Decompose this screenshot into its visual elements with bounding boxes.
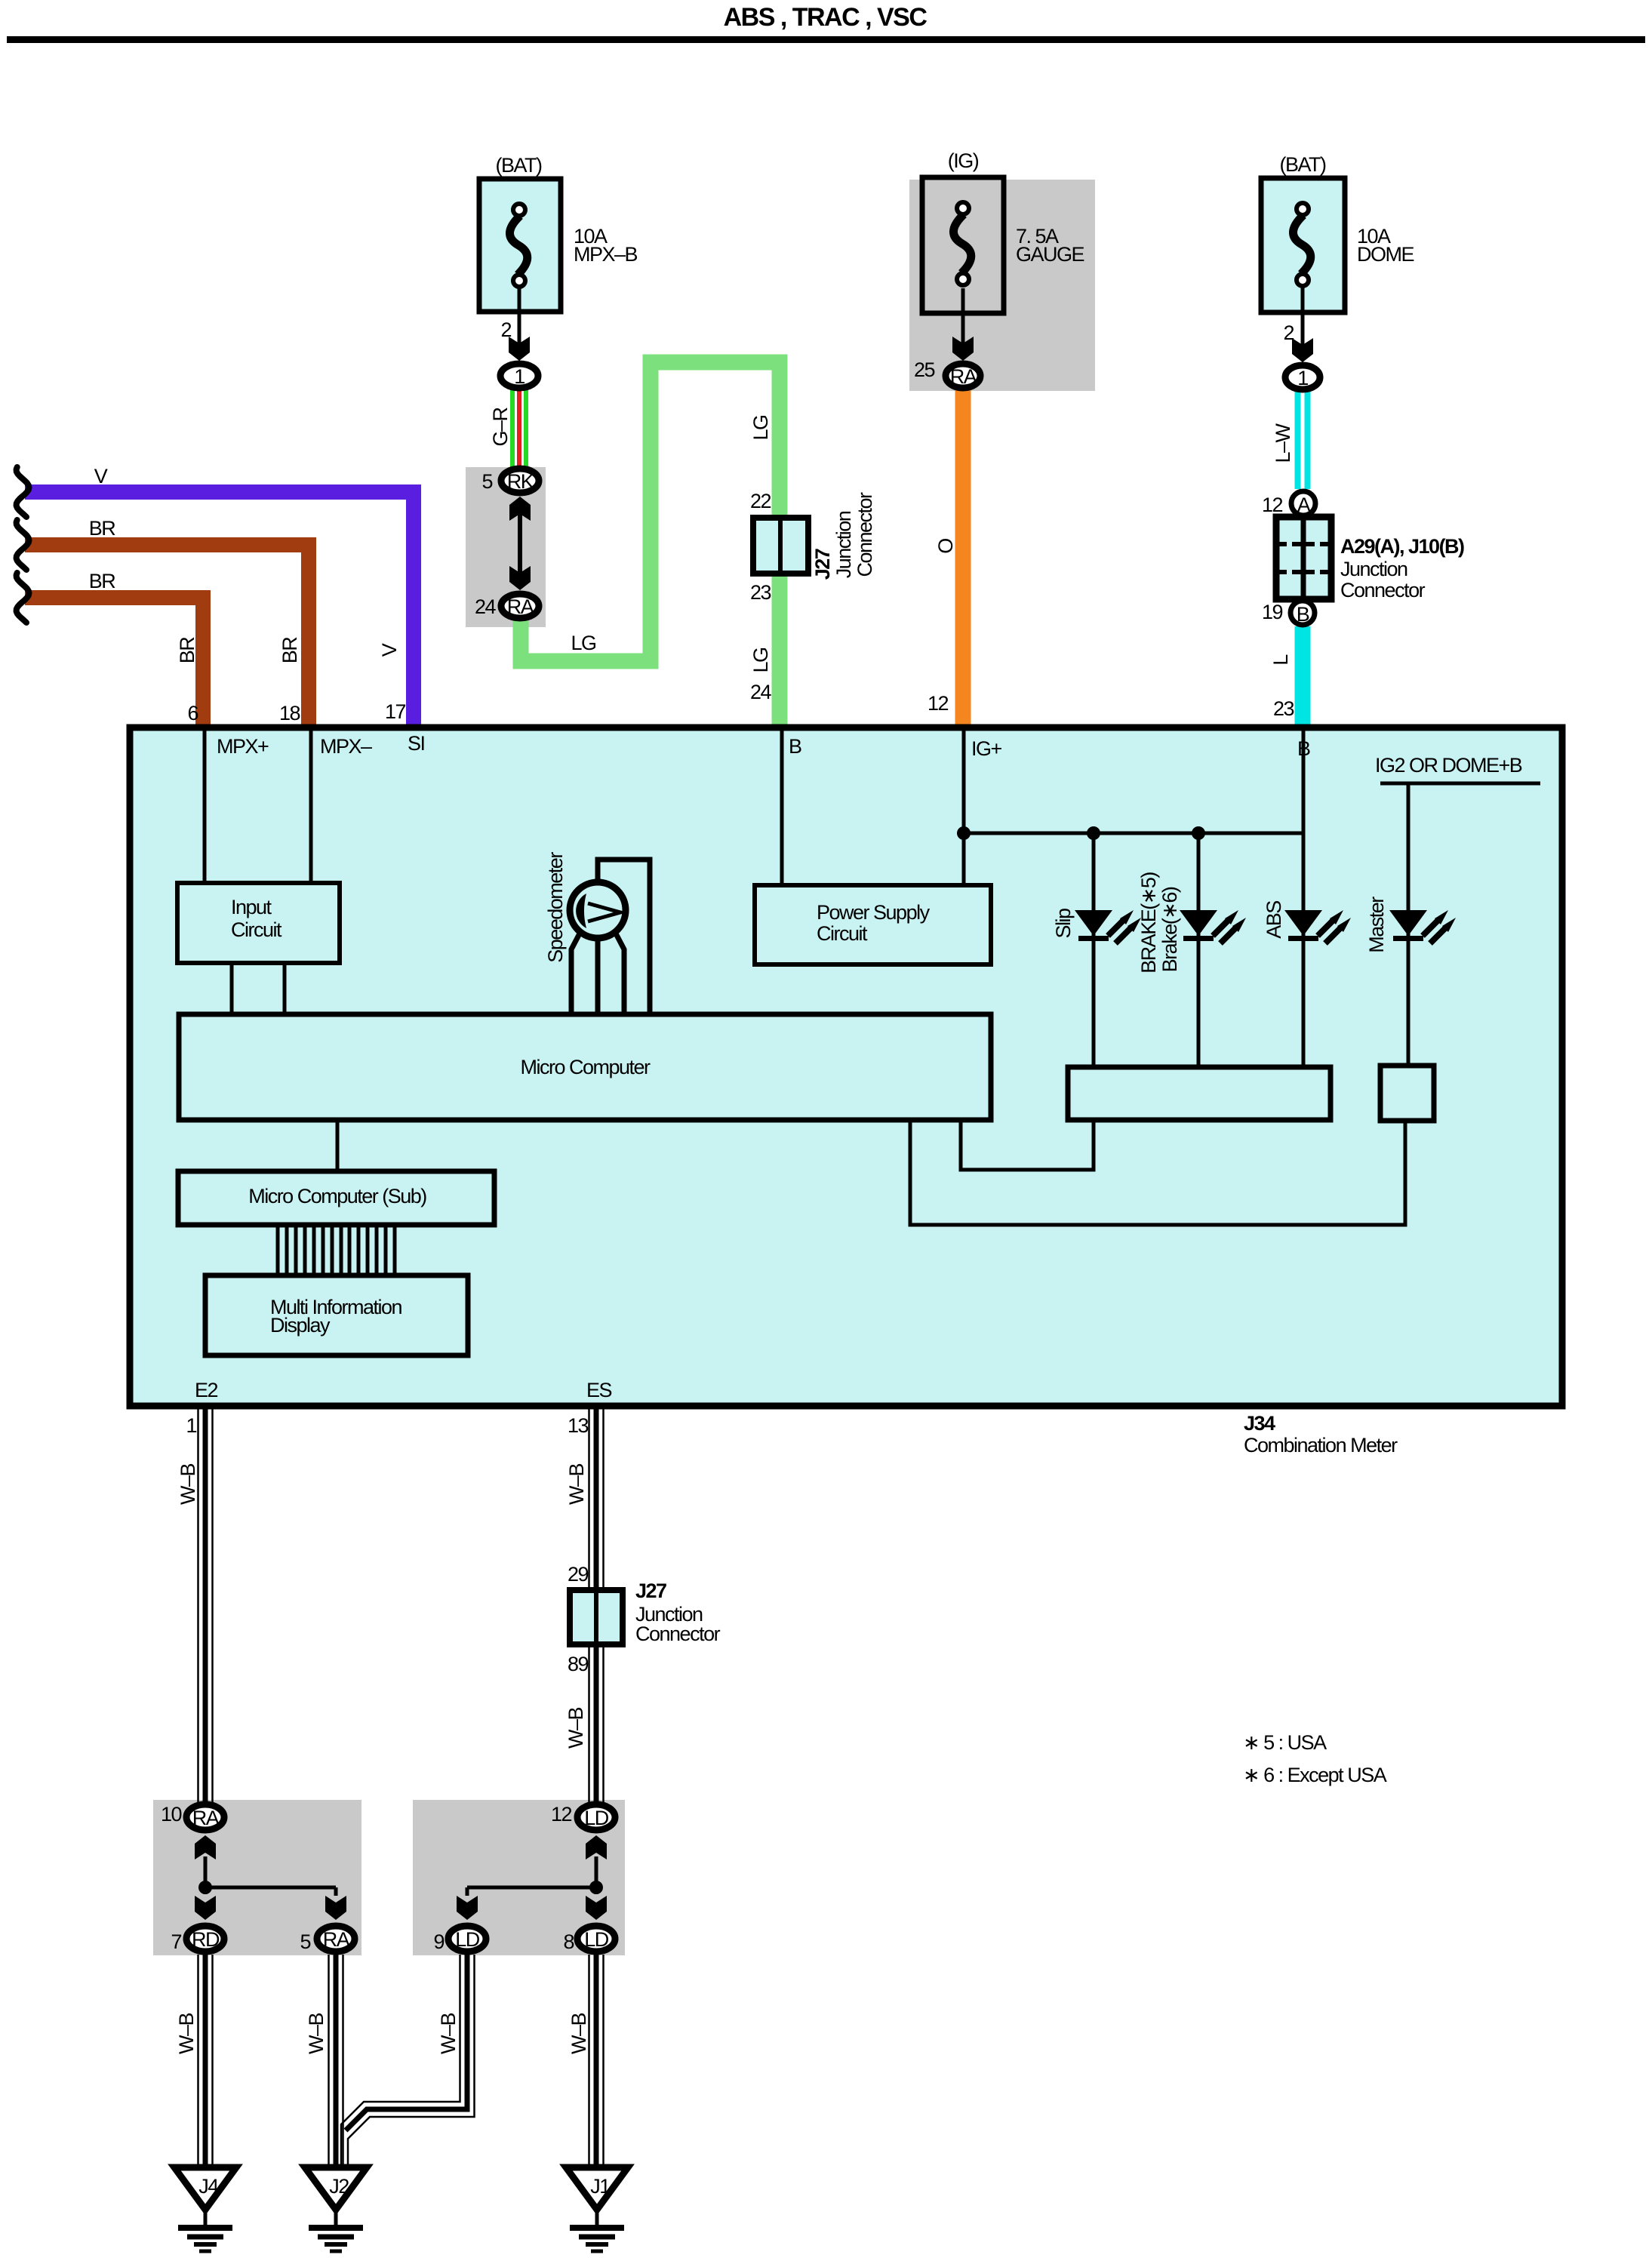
svg-text:J4: J4 bbox=[198, 2175, 219, 2198]
top rule bbox=[7, 36, 1645, 43]
svg-text:LD: LD bbox=[584, 1928, 609, 1951]
connector oval RA (10) bbox=[186, 1804, 224, 1830]
fuse 10A MPX-B (BAT) bbox=[479, 179, 561, 312]
wire W-B LD(9) jog to ground J2 bbox=[346, 1955, 467, 2130]
svg-text:A29(A), J10(B): A29(A), J10(B) bbox=[1340, 535, 1464, 558]
double connector arrows between RK and RA bbox=[509, 497, 531, 521]
svg-text:W–B: W–B bbox=[565, 1464, 588, 1506]
connector arrow into oval 1 (MPX-B) bbox=[509, 337, 530, 361]
svg-text:V: V bbox=[378, 643, 401, 657]
svg-text:SI: SI bbox=[408, 732, 425, 755]
wire master led branch from IG2/DOME+B line bbox=[1407, 783, 1411, 1067]
svg-text:MPX–B: MPX–B bbox=[574, 243, 638, 266]
svg-text:RA: RA bbox=[323, 1928, 350, 1951]
led ABS bbox=[1284, 910, 1351, 943]
svg-text:RA: RA bbox=[507, 595, 534, 618]
svg-text:Circuit: Circuit bbox=[231, 918, 282, 941]
fuse 10A DOME (BAT) bbox=[1261, 178, 1345, 312]
svg-text:Display: Display bbox=[270, 1314, 331, 1337]
junction dot slip branch bbox=[1087, 826, 1100, 840]
micro computer box bbox=[179, 1014, 991, 1120]
svg-text:25: 25 bbox=[914, 358, 935, 381]
svg-text:B: B bbox=[789, 735, 801, 758]
svg-text:LD: LD bbox=[584, 1807, 609, 1829]
power supply circuit box bbox=[755, 885, 991, 964]
fuse 7.5A GAUGE (IG) bbox=[922, 177, 1004, 313]
svg-text:7: 7 bbox=[171, 1930, 181, 1953]
svg-text:Junction: Junction bbox=[832, 511, 855, 578]
svg-text:B: B bbox=[1297, 603, 1309, 626]
svg-text:Input: Input bbox=[231, 896, 272, 918]
svg-text:Junction: Junction bbox=[1340, 558, 1407, 580]
gray overlap box around GAUGE fuse bbox=[909, 180, 1095, 391]
svg-text:13: 13 bbox=[568, 1414, 589, 1437]
svg-text:Connector: Connector bbox=[1340, 579, 1426, 601]
svg-text:19: 19 bbox=[1262, 601, 1283, 623]
wire V (violet) from off-page to pin 17 SI bbox=[25, 492, 414, 729]
svg-text:89: 89 bbox=[568, 1653, 589, 1675]
junction dot left group bbox=[198, 1881, 212, 1894]
junction dot brake branch bbox=[1192, 826, 1205, 840]
connector oval LD (9) bbox=[448, 1926, 486, 1952]
svg-text:∗ 5 : USA: ∗ 5 : USA bbox=[1243, 1731, 1327, 1754]
wire G-R (green/red) fuse MPX-B to RK bbox=[510, 389, 528, 469]
internal bus from IG+ to indicator leds bbox=[964, 832, 1303, 835]
connector arrow into oval RA (GAUGE) bbox=[952, 337, 974, 361]
wire slip led branch bbox=[1092, 833, 1096, 1067]
svg-text:IG+: IG+ bbox=[971, 737, 1002, 760]
wire W-B LD(8) to ground J1 bbox=[588, 1955, 590, 2167]
svg-text:BRAKE(∗5): BRAKE(∗5) bbox=[1137, 872, 1160, 974]
connector arrow down into RA(5) bbox=[325, 1896, 346, 1920]
multi information display box bbox=[205, 1275, 468, 1355]
wire BR (brown) from off-page to pin 18 MPX- bbox=[25, 545, 309, 729]
gray overlap box lower-left (RA/RD/RA connector group) bbox=[153, 1800, 361, 1955]
internal wire IG+ down to power supply circuit bbox=[962, 731, 966, 885]
svg-text:ES: ES bbox=[586, 1379, 612, 1401]
ribbon bus sub computer to display bbox=[276, 1225, 280, 1275]
svg-text:1: 1 bbox=[514, 365, 525, 388]
internal wire MPX+ to input circuit bbox=[203, 731, 207, 883]
connector arrow into oval 1 (DOME) bbox=[1292, 338, 1313, 362]
svg-text:5: 5 bbox=[481, 470, 492, 493]
internal wire MPX- to input circuit bbox=[309, 731, 313, 883]
svg-text:J34: J34 bbox=[1244, 1412, 1275, 1435]
svg-text:LG: LG bbox=[571, 632, 595, 654]
wire LG (light green) RA to pin 24 B via J27 bbox=[521, 362, 780, 729]
connector oval RD (7) bbox=[186, 1926, 224, 1952]
branch wire to LD(9) bbox=[467, 1886, 596, 1890]
wire micro computer to master driver box bbox=[910, 1120, 1405, 1225]
wire micro computer to driver box bbox=[961, 1120, 1094, 1170]
svg-text:Connector: Connector bbox=[635, 1623, 721, 1645]
svg-text:IG2 OR DOME+B: IG2 OR DOME+B bbox=[1375, 754, 1522, 777]
junction connector J27 (W-B wire) bbox=[570, 1590, 623, 1644]
svg-text:DOME: DOME bbox=[1357, 243, 1414, 266]
svg-text:LG: LG bbox=[749, 648, 772, 672]
connector oval RA (5) bbox=[317, 1926, 355, 1952]
svg-text:W–B: W–B bbox=[565, 1708, 587, 1749]
combination meter J34 outline bbox=[130, 727, 1562, 1406]
svg-text:Combination Meter: Combination Meter bbox=[1244, 1434, 1398, 1457]
svg-text:J27: J27 bbox=[635, 1580, 666, 1602]
wire break squiggle on upper BR wire bbox=[17, 520, 29, 570]
speedometer wire top loop to micro computer bbox=[598, 860, 650, 1014]
wire fuse GAUGE to connector arrow bbox=[961, 288, 965, 344]
connector circle B bbox=[1291, 601, 1315, 626]
internal wire B (L) down to led bus bbox=[1302, 731, 1306, 833]
svg-text:23: 23 bbox=[1273, 697, 1294, 720]
svg-text:29: 29 bbox=[568, 1563, 589, 1586]
indicator driver box (slip/brake/abs) bbox=[1068, 1067, 1331, 1120]
svg-text:W–B: W–B bbox=[177, 1464, 199, 1506]
svg-text:(BAT): (BAT) bbox=[496, 154, 542, 177]
ground J4 bbox=[174, 2167, 236, 2251]
led Master bbox=[1389, 910, 1456, 943]
connector arrow down into RD(7) bbox=[195, 1896, 216, 1920]
speedometer symbol bbox=[570, 882, 626, 938]
svg-text:12: 12 bbox=[551, 1803, 572, 1826]
svg-text:LG: LG bbox=[749, 415, 772, 440]
connector oval RA bbox=[501, 594, 539, 618]
connector arrow down into LD(9) bbox=[457, 1896, 478, 1920]
micro computer (sub) box bbox=[178, 1171, 494, 1225]
branch wire to RA(5) bbox=[205, 1886, 336, 1890]
wire L-W (light blue/white) fuse DOME to A bbox=[1295, 392, 1311, 489]
svg-text:(IG): (IG) bbox=[948, 149, 979, 172]
connector arrow down into LD(8) bbox=[586, 1896, 607, 1920]
svg-text:Speedometer: Speedometer bbox=[544, 852, 567, 963]
svg-text:A: A bbox=[1297, 494, 1311, 516]
wire below LD(12) bbox=[595, 1856, 598, 1894]
svg-text:MPX–: MPX– bbox=[320, 735, 372, 758]
svg-text:23: 23 bbox=[750, 581, 771, 604]
svg-text:∗ 6 : Except USA: ∗ 6 : Except USA bbox=[1243, 1764, 1387, 1786]
svg-text:RA: RA bbox=[950, 365, 977, 388]
connector oval RA (GAUGE) bbox=[946, 364, 980, 388]
input circuit box bbox=[177, 883, 340, 963]
svg-text:12: 12 bbox=[1262, 494, 1283, 516]
svg-text:LD: LD bbox=[455, 1928, 480, 1951]
wire break squiggle on lower BR wire bbox=[17, 573, 29, 623]
svg-text:J27: J27 bbox=[811, 549, 834, 580]
wire fuse MPX-B to connector arrow bbox=[518, 287, 521, 344]
svg-text:24: 24 bbox=[475, 595, 497, 618]
svg-text:L: L bbox=[1269, 654, 1292, 666]
svg-text:RA: RA bbox=[192, 1807, 220, 1829]
svg-text:RK: RK bbox=[507, 470, 534, 493]
svg-text:(BAT): (BAT) bbox=[1280, 153, 1326, 176]
wire abs led branch bbox=[1302, 833, 1306, 1067]
svg-text:ABS: ABS bbox=[1263, 901, 1285, 939]
wire W-B from ES bbox=[588, 1409, 590, 1803]
wire micro computer to sub computer bbox=[336, 1120, 340, 1171]
led Slip bbox=[1075, 910, 1141, 943]
gray overlap box around RK/RA connector pair bbox=[466, 467, 546, 627]
svg-text:Connector: Connector bbox=[854, 492, 876, 577]
svg-text:J1: J1 bbox=[590, 2175, 610, 2198]
svg-text:BR: BR bbox=[89, 570, 116, 592]
svg-text:22: 22 bbox=[750, 490, 771, 512]
connector oval 1 (MPX-B) bbox=[500, 364, 538, 388]
svg-text:BR: BR bbox=[89, 517, 116, 540]
connector arrow up into LD(12) bbox=[586, 1835, 607, 1859]
svg-text:G–R: G–R bbox=[489, 407, 512, 446]
svg-text:17: 17 bbox=[385, 700, 406, 723]
svg-text:L–W: L–W bbox=[1272, 423, 1294, 463]
ground J2 bbox=[305, 2167, 367, 2251]
gray overlap box lower-right (LD/LD/LD connector group) bbox=[413, 1800, 625, 1955]
svg-text:W–B: W–B bbox=[437, 2013, 460, 2055]
svg-text:Slip: Slip bbox=[1052, 909, 1075, 939]
svg-text:E2: E2 bbox=[195, 1379, 218, 1401]
junction connector J27 (LG wire) bbox=[753, 518, 808, 574]
svg-text:Circuit: Circuit bbox=[817, 922, 868, 945]
wire break squiggle on V wire bbox=[17, 467, 29, 517]
connector circle A bbox=[1291, 491, 1315, 516]
wire W-B RA(5) to ground J2 bbox=[328, 1955, 330, 2167]
svg-text:8: 8 bbox=[563, 1930, 574, 1953]
junction connector A29(A), J10(B) bbox=[1276, 517, 1331, 599]
connector oval LD (8) bbox=[577, 1926, 615, 1952]
svg-text:18: 18 bbox=[279, 702, 300, 724]
led BRAKE bbox=[1180, 910, 1246, 943]
svg-text:24: 24 bbox=[750, 681, 772, 703]
svg-text:Master: Master bbox=[1365, 897, 1388, 953]
svg-text:1: 1 bbox=[1297, 367, 1308, 389]
junction dot IG+ bbox=[957, 826, 971, 840]
svg-text:W–B: W–B bbox=[568, 2013, 590, 2055]
connector arrow up into RA(10) bbox=[195, 1835, 216, 1859]
svg-text:9: 9 bbox=[433, 1930, 444, 1953]
svg-text:Brake(∗6): Brake(∗6) bbox=[1158, 887, 1181, 972]
svg-text:Micro Computer: Micro Computer bbox=[520, 1056, 651, 1078]
svg-text:Micro Computer (Sub): Micro Computer (Sub) bbox=[248, 1185, 426, 1207]
speedometer wires bottom to micro computer bbox=[571, 934, 580, 1014]
svg-text:ABS , TRAC , VSC: ABS , TRAC , VSC bbox=[724, 3, 928, 32]
svg-text:RD: RD bbox=[192, 1928, 220, 1951]
svg-text:J2: J2 bbox=[329, 2175, 349, 2198]
svg-text:5: 5 bbox=[300, 1930, 310, 1953]
internal wire B to power supply circuit bbox=[780, 731, 784, 885]
wire W-B RD(7) to ground J4 bbox=[197, 1955, 199, 2167]
svg-text:6: 6 bbox=[187, 702, 198, 724]
svg-text:GAUGE: GAUGE bbox=[1016, 243, 1084, 266]
svg-text:W–B: W–B bbox=[175, 2013, 198, 2055]
connector oval RK bbox=[501, 469, 539, 493]
svg-text:BR: BR bbox=[278, 637, 301, 664]
svg-text:12: 12 bbox=[928, 692, 949, 715]
connector oval LD (12) bbox=[577, 1804, 615, 1830]
svg-text:MPX+: MPX+ bbox=[217, 735, 269, 758]
wire fuse DOME to connector arrow bbox=[1301, 287, 1305, 346]
wire below RA(10) bbox=[204, 1856, 208, 1894]
svg-text:Power Supply: Power Supply bbox=[817, 901, 931, 924]
wire O (orange) gauge RA to pin 12 IG+ bbox=[955, 389, 971, 729]
ground J1 bbox=[566, 2167, 628, 2251]
wires input circuit to micro computer bbox=[230, 963, 234, 1014]
svg-text:BR: BR bbox=[176, 637, 198, 664]
connector oval 1 (DOME) bbox=[1285, 365, 1320, 389]
svg-text:1: 1 bbox=[186, 1414, 196, 1437]
svg-text:W–B: W–B bbox=[305, 2013, 328, 2055]
junction dot right group bbox=[589, 1881, 603, 1894]
wire W-B from E2 bbox=[197, 1409, 199, 1803]
master driver box bbox=[1380, 1066, 1434, 1121]
wire L (light blue) B to pin 23 bbox=[1295, 626, 1311, 729]
svg-text:O: O bbox=[934, 539, 957, 554]
svg-text:10: 10 bbox=[161, 1803, 182, 1826]
svg-text:V: V bbox=[94, 465, 108, 488]
wire BR (brown) from off-page to pin 6 MPX+ bbox=[25, 598, 203, 729]
wire brake led branch bbox=[1197, 833, 1201, 1067]
